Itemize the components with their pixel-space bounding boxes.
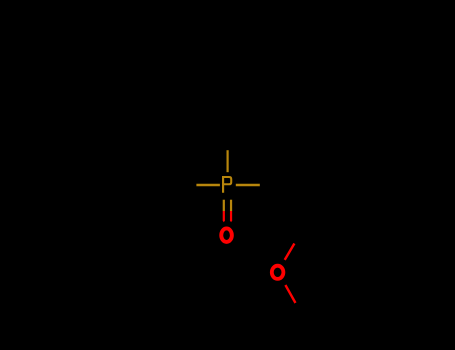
wire: ring to methoxy O bond, carbon half (near-black) xyxy=(295,226,306,244)
atom label P (phosphorus, gold) xyxy=(222,176,232,193)
wire: P to right ring bond, carbon half (near-black) xyxy=(260,184,282,186)
wire: P to top ring bond, carbon half (near-black) xyxy=(226,128,228,150)
wire: methoxy O to methyl bond, carbon half (near-black) xyxy=(296,303,306,321)
P=O double bond, left line, O half (red) xyxy=(223,211,225,222)
wire: methoxy O to methyl bond, O half (red) xyxy=(285,285,295,303)
wire: P to left ring bond, P half (gold) xyxy=(196,184,220,186)
wire: P to left ring bond, carbon half (near-black) xyxy=(173,184,197,186)
P=O double bond, right line, O half (red) xyxy=(230,211,232,222)
P=O double bond, right line, P half (gold) xyxy=(230,200,232,211)
top phenyl ring (carbon bonds, near-black) xyxy=(187,34,268,128)
P=O double bond, left line, P half (gold) xyxy=(223,200,225,211)
atom label O (phosphoryl oxygen, red) xyxy=(221,228,232,242)
left phenyl ring (carbon bonds, near-black) xyxy=(79,144,173,225)
wire: P to top ring bond, P half (gold) xyxy=(227,150,229,172)
atom label O (methoxy oxygen, red) xyxy=(272,266,284,279)
wire: ring to methoxy O bond, O half (red) xyxy=(285,244,295,260)
right phenyl ring (2-methoxyphenyl, carbon bonds, near-black) xyxy=(282,144,376,225)
wire: P to right ring bond, P half (gold) xyxy=(236,184,260,186)
